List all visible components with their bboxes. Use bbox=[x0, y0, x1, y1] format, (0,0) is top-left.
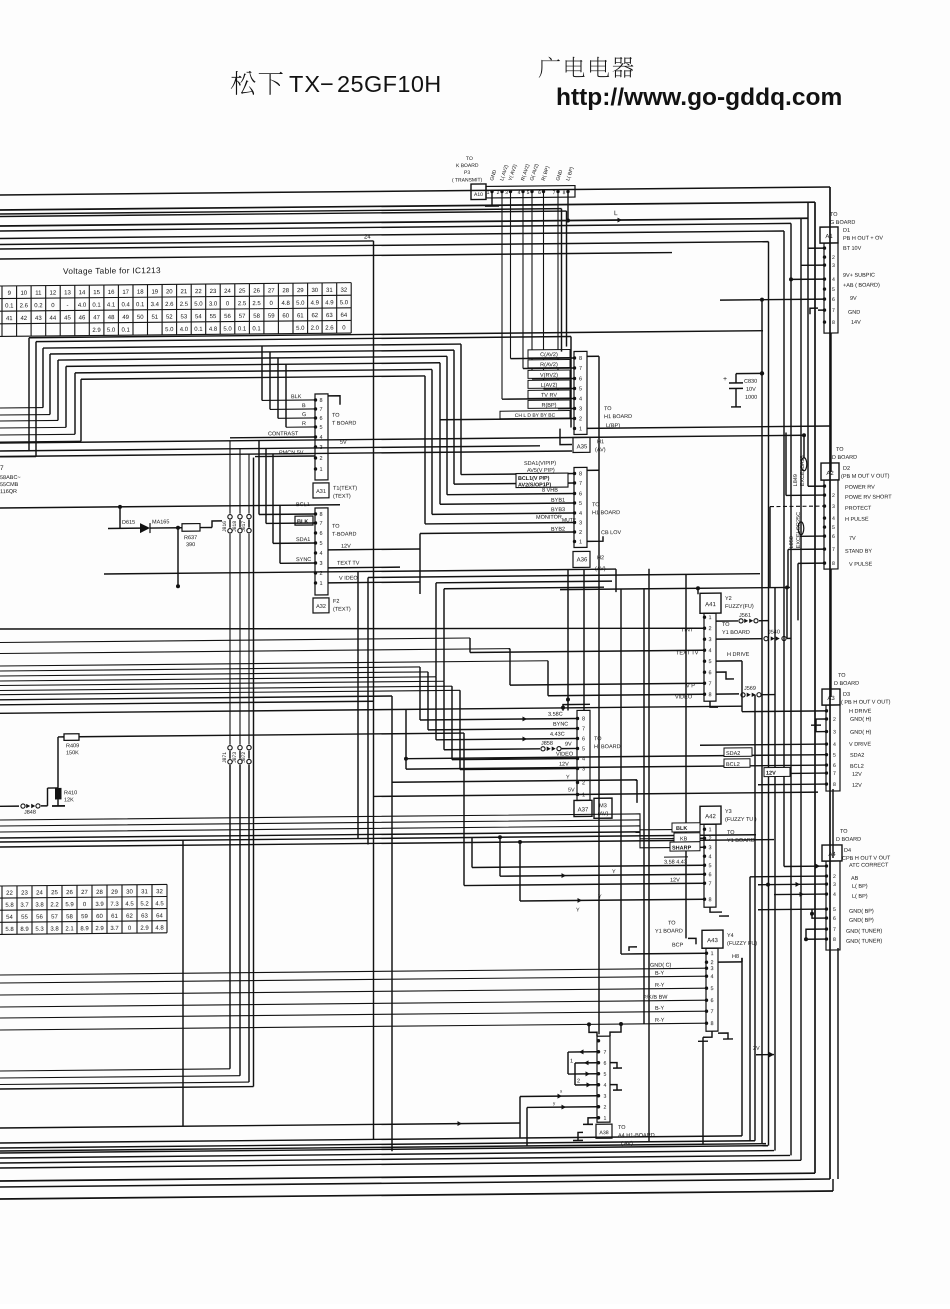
svg-text:STAND BY: STAND BY bbox=[845, 549, 872, 555]
svg-text:B: B bbox=[302, 403, 306, 409]
svg-text:A4 H1-BOARD: A4 H1-BOARD bbox=[618, 1133, 655, 1139]
wire vertical x358 bbox=[357, 572, 359, 839]
svg-text:6: 6 bbox=[710, 998, 713, 1004]
wire right rail 8 bbox=[761, 300, 763, 1144]
wire bottom bus 8 bbox=[0, 1173, 815, 1181]
svg-text:HI BOARD: HI BOARD bbox=[594, 744, 621, 750]
svg-text:2.6: 2.6 bbox=[325, 326, 334, 332]
svg-text:8: 8 bbox=[319, 512, 322, 518]
wire TEXT TV from A32 bbox=[328, 566, 400, 569]
A38 ref box bbox=[596, 1124, 612, 1138]
svg-text:H1 BOARD: H1 BOARD bbox=[592, 510, 620, 516]
svg-text:51: 51 bbox=[151, 315, 158, 321]
svg-text:H1: H1 bbox=[597, 439, 604, 445]
wire VIDEO from A32 bbox=[328, 581, 420, 584]
wire SDA1 to A32 bbox=[273, 542, 315, 544]
svg-text:24: 24 bbox=[36, 890, 43, 896]
svg-text:J816: J816 bbox=[222, 521, 228, 532]
svg-text:61: 61 bbox=[111, 914, 118, 920]
svg-text:BYB1: BYB1 bbox=[551, 498, 565, 504]
svg-text:13: 13 bbox=[64, 290, 71, 296]
A42 12V wire bbox=[464, 883, 704, 885]
svg-text:27: 27 bbox=[81, 890, 88, 896]
svg-text:GND( C): GND( C) bbox=[650, 963, 672, 969]
wire top drop x561 bbox=[561, 209, 563, 352]
svg-text:6: 6 bbox=[579, 376, 582, 382]
svg-text:3: 3 bbox=[833, 729, 836, 735]
svg-text:D BOARD: D BOARD bbox=[834, 681, 859, 687]
svg-text:8: 8 bbox=[708, 897, 711, 903]
resistor R410 12K bbox=[57, 737, 59, 788]
A42 lower Y wire bbox=[520, 899, 704, 901]
svg-text:5: 5 bbox=[579, 386, 582, 392]
A38 pin1 bottom-left bracket bbox=[588, 1118, 597, 1125]
svg-text:BYNC: BYNC bbox=[553, 722, 568, 728]
svg-text:29: 29 bbox=[111, 890, 118, 896]
svg-text:L850: L850 bbox=[789, 536, 795, 548]
wire vertical x183 bbox=[182, 840, 184, 1126]
wire mid bus left y457 bbox=[0, 456, 36, 458]
svg-text:7: 7 bbox=[582, 726, 585, 732]
svg-text:4.0: 4.0 bbox=[180, 327, 189, 333]
svg-text:7: 7 bbox=[319, 521, 322, 527]
svg-text:22: 22 bbox=[6, 891, 13, 897]
svg-text:7: 7 bbox=[710, 1009, 713, 1015]
12V label wire bbox=[764, 767, 790, 776]
svg-text:4.9: 4.9 bbox=[325, 300, 334, 306]
svg-text:5: 5 bbox=[604, 1072, 607, 1078]
wire stub below R637 bbox=[177, 528, 179, 587]
svg-text:R409: R409 bbox=[66, 743, 79, 749]
svg-text:P/K/B BW: P/K/B BW bbox=[643, 995, 668, 1001]
svg-text:50: 50 bbox=[137, 315, 144, 321]
A10 pin8 L(BP) drop bbox=[567, 193, 569, 221]
wire vertical x368 bbox=[367, 577, 369, 844]
svg-text:3: 3 bbox=[579, 520, 582, 526]
svg-text:H8: H8 bbox=[732, 954, 739, 960]
svg-text:8: 8 bbox=[710, 1021, 713, 1027]
svg-text:J818: J818 bbox=[232, 521, 238, 532]
wire A42 feed y826 bbox=[0, 820, 672, 845]
wire A41 pin3 to J540 bbox=[716, 638, 762, 640]
svg-text:H1 BOARD: H1 BOARD bbox=[604, 414, 632, 420]
wire BYB2 to A36 bbox=[420, 532, 574, 533]
wire vertical x649 bbox=[648, 569, 650, 1142]
svg-text:55CMB: 55CMB bbox=[0, 482, 19, 488]
svg-text:3: 3 bbox=[832, 263, 835, 269]
svg-text:8.9: 8.9 bbox=[20, 927, 29, 933]
svg-text:C(AV2): C(AV2) bbox=[540, 352, 558, 358]
wire mid bus left y421 bbox=[0, 419, 58, 422]
svg-text:7: 7 bbox=[0, 465, 4, 472]
wire right rail 2 bbox=[814, 202, 816, 1173]
H DRIVE stub bbox=[716, 660, 742, 662]
svg-text:6: 6 bbox=[579, 491, 582, 497]
A10 ground pin1 bbox=[491, 193, 493, 206]
svg-text:5: 5 bbox=[708, 863, 711, 869]
svg-text:64: 64 bbox=[156, 913, 163, 919]
svg-text:A31: A31 bbox=[316, 489, 326, 495]
connector A43 (Y4 FUZZY FU, to Y1 board) bbox=[702, 930, 723, 948]
wire A43 feed y1018 bbox=[0, 1011, 706, 1018]
svg-text:11: 11 bbox=[35, 291, 42, 297]
svg-text:2.2: 2.2 bbox=[50, 902, 59, 908]
A32 ref box bbox=[313, 598, 329, 613]
svg-text:J858: J858 bbox=[541, 741, 553, 747]
svg-text:6: 6 bbox=[538, 190, 541, 196]
A35 right bracket bbox=[587, 355, 599, 357]
A38 right pin brackets bbox=[610, 1063, 617, 1069]
svg-text:(TEXT): (TEXT) bbox=[333, 494, 351, 500]
svg-text:D2: D2 bbox=[843, 466, 850, 472]
svg-text:28: 28 bbox=[282, 288, 289, 294]
svg-text:3.7: 3.7 bbox=[20, 903, 29, 909]
wire mid bus left y408 bbox=[0, 407, 43, 409]
svg-text:A3: A3 bbox=[827, 696, 835, 702]
A43 top-left bracket bbox=[688, 938, 696, 944]
svg-text:5: 5 bbox=[832, 287, 835, 293]
svg-text:8: 8 bbox=[832, 561, 835, 567]
svg-text:BCL2: BCL2 bbox=[850, 764, 864, 770]
svg-text:TO: TO bbox=[594, 736, 602, 742]
svg-text:( TRANSMIT): ( TRANSMIT) bbox=[452, 177, 483, 183]
svg-text:5: 5 bbox=[319, 425, 322, 431]
wire vertical x644 bbox=[643, 589, 645, 1024]
wire right rail 4 bbox=[800, 218, 802, 1160]
wire mid bus y685.5 bbox=[0, 681, 444, 685]
wire 9V to A1 pin6 bbox=[720, 298, 824, 301]
wire mid bus y700 (Y) bbox=[0, 696, 392, 700]
wire top bus 3 bbox=[0, 209, 562, 214]
svg-text:J569: J569 bbox=[744, 686, 756, 692]
svg-text:3: 3 bbox=[604, 1094, 607, 1100]
svg-text:TO: TO bbox=[332, 524, 340, 530]
wire long y575 bbox=[104, 569, 616, 574]
A31 top bracket bbox=[328, 396, 340, 405]
svg-text:4.5: 4.5 bbox=[155, 901, 164, 907]
svg-text:A1: A1 bbox=[825, 234, 833, 240]
svg-text:5.8: 5.8 bbox=[5, 903, 14, 909]
svg-text:TO: TO bbox=[727, 830, 735, 836]
svg-text:TEXT TV: TEXT TV bbox=[676, 650, 699, 656]
wire A43 feed y995 bbox=[0, 988, 706, 995]
wire bottom bus 6 bbox=[0, 1155, 790, 1163]
svg-text:2: 2 bbox=[579, 530, 582, 536]
svg-text:B-Y: B-Y bbox=[655, 971, 664, 977]
svg-text:46: 46 bbox=[79, 315, 86, 321]
svg-text:43: 43 bbox=[35, 316, 42, 322]
A4 GND(BP) bracket bbox=[812, 909, 826, 918]
A41 bottom bracket bbox=[710, 701, 718, 707]
svg-text:Y: Y bbox=[612, 869, 616, 875]
svg-text:8 VHB: 8 VHB bbox=[542, 488, 558, 494]
wire mid bus y713 bbox=[0, 706, 742, 713]
svg-text:A37: A37 bbox=[578, 807, 589, 813]
svg-text:12K: 12K bbox=[64, 797, 74, 803]
svg-text:R: R bbox=[302, 421, 306, 427]
svg-text:H DRIVE: H DRIVE bbox=[727, 652, 750, 658]
svg-text:7: 7 bbox=[833, 927, 836, 933]
wire mid bus y666 bbox=[0, 661, 548, 666]
wire top bus 5 L(BP) bbox=[0, 218, 808, 226]
svg-text:(PB M OUT V OUT): (PB M OUT V OUT) bbox=[841, 473, 890, 479]
svg-text:A38: A38 bbox=[599, 1130, 608, 1136]
wire to A38 pin3 bbox=[520, 1095, 597, 1098]
wire mid bus top 2 bbox=[36, 337, 571, 342]
svg-text:3.7: 3.7 bbox=[110, 926, 119, 932]
svg-text:2: 2 bbox=[319, 456, 322, 462]
svg-text:2.9: 2.9 bbox=[95, 926, 104, 932]
A36 ref box bbox=[573, 551, 590, 567]
svg-text:8: 8 bbox=[582, 716, 585, 722]
svg-text:6: 6 bbox=[832, 297, 835, 303]
svg-text:(FUZZY FU): (FUZZY FU) bbox=[727, 941, 757, 947]
wire stub to L849 bbox=[803, 435, 805, 458]
wire bottom bus 9 bbox=[0, 1179, 830, 1187]
wire BCL2 to A3 bbox=[406, 765, 826, 769]
connector A42 (Y3 FUZZY TU, to Y1 board) bbox=[700, 806, 721, 824]
svg-text:V PULSE: V PULSE bbox=[849, 562, 873, 568]
svg-text:390: 390 bbox=[186, 542, 195, 548]
svg-text:V DRIVE: V DRIVE bbox=[849, 742, 871, 748]
wire A10 drop to A35 R(AV2) bbox=[522, 192, 524, 368]
wire mid bus y642.5 bbox=[0, 638, 470, 643]
svg-text:5: 5 bbox=[832, 525, 835, 531]
svg-text:4: 4 bbox=[710, 974, 713, 980]
svg-text:8.9: 8.9 bbox=[80, 926, 89, 932]
svg-text:TX: TX bbox=[289, 71, 321, 97]
jumper J873 upper lead bbox=[239, 534, 241, 745]
wire mid bus y671 bbox=[0, 667, 420, 671]
svg-text:Y: Y bbox=[566, 775, 570, 781]
svg-text:( AV): ( AV) bbox=[621, 1141, 633, 1147]
svg-text:6: 6 bbox=[833, 916, 836, 922]
svg-text:4: 4 bbox=[319, 435, 322, 441]
header: site name bbox=[539, 57, 560, 78]
A42 feed labels bbox=[672, 823, 700, 832]
jumper J858 bbox=[541, 747, 545, 751]
svg-text:4.8: 4.8 bbox=[282, 301, 291, 307]
svg-text:EXCELOR25C: EXCELOR25C bbox=[796, 512, 802, 548]
svg-text:J873: J873 bbox=[232, 752, 238, 763]
A3 GND(H) bracket bbox=[816, 719, 826, 732]
svg-text:25: 25 bbox=[51, 890, 58, 896]
svg-text:32: 32 bbox=[341, 288, 348, 294]
svg-text:MA165: MA165 bbox=[152, 519, 169, 525]
voltage table 2 (lower left, partial) bbox=[0, 884, 167, 934]
svg-text:GND( BP): GND( BP) bbox=[849, 918, 874, 924]
wire right rail 6 bbox=[768, 242, 770, 1146]
svg-text:BLK: BLK bbox=[297, 519, 308, 525]
A35 left bracket bbox=[560, 429, 572, 445]
svg-text:2.5: 2.5 bbox=[180, 302, 189, 308]
svg-text:TO: TO bbox=[332, 413, 340, 419]
svg-text:4: 4 bbox=[579, 396, 582, 402]
svg-text:R-Y: R-Y bbox=[655, 1018, 665, 1024]
svg-text:R410: R410 bbox=[64, 790, 77, 796]
svg-text:5: 5 bbox=[710, 986, 713, 992]
wire mid bus left y442 bbox=[0, 440, 81, 443]
svg-text:5.8: 5.8 bbox=[5, 927, 14, 933]
svg-text:48: 48 bbox=[108, 315, 115, 321]
svg-text:4: 4 bbox=[832, 516, 835, 522]
svg-text:L( BP): L( BP) bbox=[852, 884, 868, 890]
svg-text:4.0: 4.0 bbox=[78, 303, 87, 309]
svg-text:8: 8 bbox=[579, 356, 582, 362]
wire vertical x436 ext bbox=[435, 583, 437, 677]
A41 pin6 bracket bbox=[716, 672, 734, 679]
wire vertical x255 bbox=[253, 458, 255, 1087]
wire left band y842 bbox=[0, 835, 756, 842]
svg-text:6: 6 bbox=[708, 670, 711, 676]
wire vertical x584 bbox=[583, 569, 585, 710]
A36 CB LOV stub bbox=[587, 536, 603, 541]
svg-text:TO: TO bbox=[830, 212, 838, 218]
svg-text:0.1: 0.1 bbox=[238, 326, 247, 332]
svg-text:5V: 5V bbox=[340, 440, 347, 446]
svg-text:2: 2 bbox=[708, 626, 711, 632]
svg-text:BYB3: BYB3 bbox=[551, 507, 565, 513]
svg-text:4.1: 4.1 bbox=[107, 302, 116, 308]
svg-text:25: 25 bbox=[239, 289, 246, 295]
svg-text:7: 7 bbox=[553, 190, 556, 196]
wire vertical x464 to A42 12V bbox=[463, 733, 465, 886]
svg-text:J872: J872 bbox=[241, 752, 247, 763]
svg-text:CONTRAST: CONTRAST bbox=[268, 431, 299, 437]
wire mid bus y694.7 bbox=[0, 690, 460, 694]
svg-text:http://www.go-gddq.com: http://www.go-gddq.com bbox=[556, 84, 842, 111]
wire vertical x568 bbox=[567, 570, 569, 711]
svg-text:59: 59 bbox=[81, 914, 88, 920]
svg-text:2V: 2V bbox=[753, 1046, 760, 1052]
svg-text:Y1 BOARD: Y1 BOARD bbox=[655, 928, 683, 934]
svg-text:26: 26 bbox=[66, 890, 73, 896]
svg-text:CPB H OUT V OUT: CPB H OUT V OUT bbox=[842, 855, 891, 861]
svg-text:7: 7 bbox=[708, 881, 711, 887]
jumper J561 bbox=[716, 620, 738, 622]
svg-text:2.0: 2.0 bbox=[311, 326, 320, 332]
svg-text:7: 7 bbox=[708, 681, 711, 687]
svg-text:T-BOARD: T-BOARD bbox=[332, 532, 356, 538]
svg-text:6: 6 bbox=[708, 872, 711, 878]
svg-text:42: 42 bbox=[20, 316, 27, 322]
svg-text:SDA2: SDA2 bbox=[726, 751, 740, 757]
svg-text:8: 8 bbox=[579, 471, 582, 477]
wire 12V from A32 bbox=[328, 548, 420, 551]
wire mid bus y676 bbox=[0, 672, 428, 676]
connector A32 (F2 TEXT, to T board) bbox=[315, 508, 328, 595]
wire V DRIVE to A3 bbox=[700, 744, 826, 745]
svg-text:2.1: 2.1 bbox=[65, 926, 74, 932]
svg-text:R(AV2): R(AV2) bbox=[540, 362, 558, 368]
svg-text:5.0: 5.0 bbox=[165, 327, 174, 333]
svg-text:18: 18 bbox=[137, 290, 144, 296]
svg-text:GND: GND bbox=[848, 310, 860, 316]
svg-text:4: 4 bbox=[579, 511, 582, 517]
svg-text:3.9: 3.9 bbox=[95, 902, 104, 908]
wire bottom single y1128 bbox=[0, 1123, 520, 1128]
svg-text:30: 30 bbox=[311, 288, 318, 294]
svg-text:1: 1 bbox=[582, 792, 585, 798]
svg-text:7: 7 bbox=[604, 1050, 607, 1056]
svg-text:53: 53 bbox=[181, 314, 188, 320]
svg-text:3: 3 bbox=[319, 561, 322, 567]
wire BCL1 to A32 bbox=[259, 513, 315, 516]
svg-text:5: 5 bbox=[579, 501, 582, 507]
wire right rail / outer frame right bbox=[829, 187, 831, 1179]
wire drop to A35 bracket bbox=[570, 337, 572, 428]
connector A37 (M3 AV, to HI board) bbox=[577, 710, 590, 800]
svg-text:J848: J848 bbox=[24, 810, 36, 816]
wire mid bus left y428 bbox=[0, 426, 66, 429]
svg-text:60: 60 bbox=[96, 914, 103, 920]
svg-text:D615: D615 bbox=[122, 520, 135, 526]
svg-text:32: 32 bbox=[156, 889, 163, 895]
svg-text:Y3: Y3 bbox=[725, 809, 732, 815]
svg-text:FUZZY(FU): FUZZY(FU) bbox=[725, 604, 754, 610]
svg-text:A43: A43 bbox=[707, 938, 718, 944]
svg-text:59: 59 bbox=[268, 314, 275, 320]
wire mid bus left y435 bbox=[0, 433, 75, 436]
svg-text:5.2: 5.2 bbox=[140, 901, 149, 907]
svg-text:29: 29 bbox=[297, 288, 304, 294]
jumper J817 upper lead bbox=[248, 454, 250, 514]
svg-text:3: 3 bbox=[710, 966, 713, 972]
svg-text:9V: 9V bbox=[850, 296, 857, 302]
svg-text:8: 8 bbox=[563, 190, 566, 196]
wire bottom from J871 bbox=[0, 1069, 230, 1071]
svg-text:0.1: 0.1 bbox=[136, 302, 145, 308]
svg-text:63: 63 bbox=[141, 914, 148, 920]
wire left single y456 L(BP) from A10 pin8 bbox=[0, 451, 572, 456]
svg-text:D BOARD: D BOARD bbox=[836, 837, 861, 843]
svg-text:4.8: 4.8 bbox=[209, 327, 218, 333]
wire bottom bus 1 bbox=[0, 1136, 742, 1143]
svg-text:0.4: 0.4 bbox=[122, 302, 131, 308]
svg-text:V(RV2): V(RV2) bbox=[540, 373, 558, 379]
svg-text:4: 4 bbox=[833, 742, 836, 748]
svg-text:Y: Y bbox=[598, 894, 602, 900]
svg-text:10: 10 bbox=[20, 291, 27, 297]
wire left single y451 bbox=[0, 446, 540, 451]
svg-text:T BOARD: T BOARD bbox=[332, 421, 356, 427]
svg-text:1: 1 bbox=[579, 426, 582, 432]
svg-text:TO: TO bbox=[618, 1125, 626, 1131]
A37 ref box bbox=[574, 800, 592, 816]
svg-text:TO: TO bbox=[466, 156, 473, 162]
wire bottom bus 7 bbox=[0, 1160, 801, 1168]
svg-text:12: 12 bbox=[50, 290, 57, 296]
svg-text:1: 1 bbox=[319, 467, 322, 473]
svg-text:VIDEO: VIDEO bbox=[675, 694, 693, 700]
svg-text:GND( BP): GND( BP) bbox=[849, 909, 874, 915]
wire top bus 2 bbox=[0, 202, 815, 210]
wire top drop x566 bbox=[566, 211, 568, 347]
wire top bus 1 / outer frame top bbox=[0, 187, 830, 195]
svg-text:2: 2 bbox=[708, 836, 711, 842]
wire vertical x599 (A35 bracket to A38) bbox=[598, 356, 600, 1034]
svg-text:3: 3 bbox=[319, 445, 322, 451]
svg-text:2.9: 2.9 bbox=[140, 926, 149, 932]
connector A38 (A4 H1-BOARD AV) bbox=[589, 1024, 597, 1036]
A36 right bracket bbox=[587, 469, 599, 471]
svg-text:58ABC~: 58ABC~ bbox=[0, 475, 21, 481]
svg-text:8: 8 bbox=[833, 937, 836, 943]
svg-text:52: 52 bbox=[166, 315, 173, 321]
wire A43 feed y1007 bbox=[0, 1000, 706, 1007]
wire bottom from x255 bbox=[0, 1087, 254, 1089]
svg-text:(AV): (AV) bbox=[598, 811, 609, 817]
